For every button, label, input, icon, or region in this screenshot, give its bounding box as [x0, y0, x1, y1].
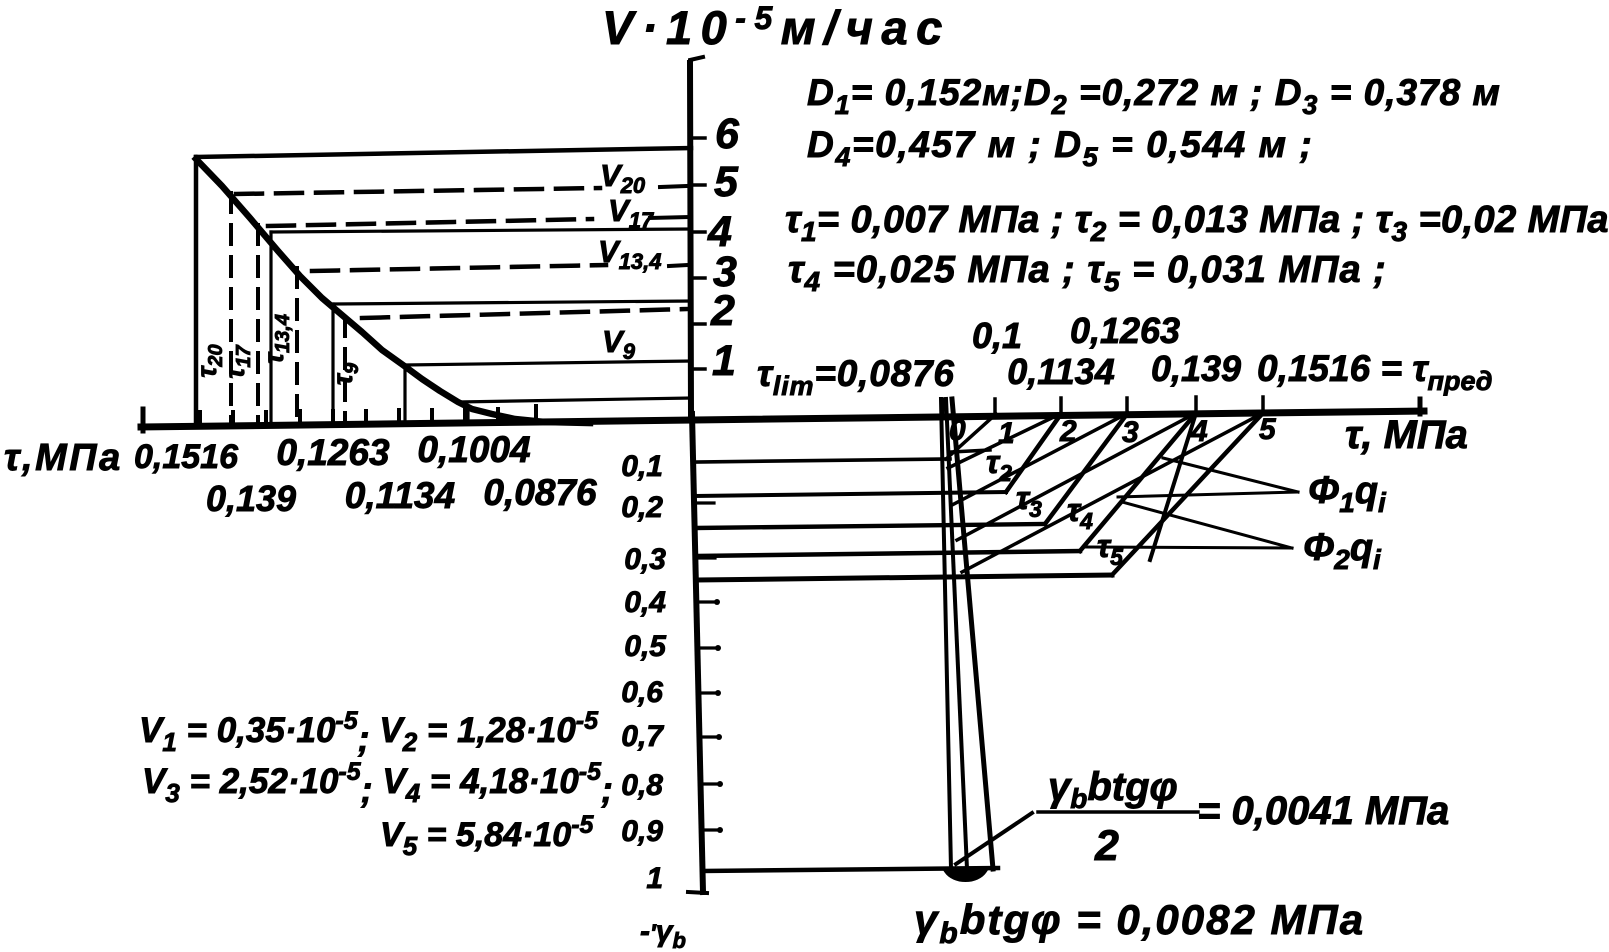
- fraction leader: [956, 813, 1032, 864]
- svg-text:γbbtgφ = 0,0082 МПа: γbbtgφ = 0,0082 МПа: [914, 896, 1365, 950]
- svg-text:1: 1: [998, 417, 1015, 450]
- svg-text:0,8: 0,8: [621, 769, 663, 802]
- vertical solid at 333: [331, 304, 334, 424]
- V axis (upper vertical): [690, 63, 691, 414]
- dashed line V17: [268, 219, 592, 226]
- svg-text:1: 1: [646, 862, 663, 895]
- svg-text:τ4 =0,025 МПа ; τ5 = 0,031 МП: τ4 =0,025 МПа ; τ5 = 0,031 МПа ;: [788, 249, 1387, 297]
- fan m1: [946, 414, 996, 459]
- svg-text:1: 1: [712, 337, 736, 385]
- vertical dashed tau13.4: [295, 268, 299, 424]
- svg-text:0,9: 0,9: [621, 815, 663, 848]
- svg-text:0,0876: 0,0876: [483, 472, 597, 513]
- bottom level-1 line: [703, 868, 998, 871]
- riser s2: [1006, 414, 1061, 492]
- x axis left end tick: [141, 409, 146, 431]
- leader phi1 a: [1163, 458, 1298, 492]
- svg-text:2: 2: [710, 287, 735, 335]
- q line 4: [697, 551, 1080, 556]
- svg-text:5: 5: [714, 158, 739, 206]
- vertical dashed tau20: [229, 193, 233, 424]
- leader phi2 b: [1086, 547, 1292, 548]
- vertical solid at 405: [403, 365, 406, 424]
- svg-text:0: 0: [949, 414, 966, 447]
- step under 0: [951, 450, 990, 452]
- steep line from tick4: [1150, 413, 1196, 560]
- lower axis tick dots: [714, 599, 723, 833]
- x axis right end serif: [1418, 399, 1423, 414]
- leader phi2 a: [1122, 502, 1292, 548]
- svg-text:τ1= 0,007 МПа ; τ2 = 0,013 МПа: τ1= 0,007 МПа ; τ2 = 0,013 МПа ; τ3 =0,0…: [785, 199, 1609, 247]
- svg-text:6: 6: [715, 110, 740, 158]
- main curve: [196, 159, 590, 423]
- vertical solid at 270: [269, 232, 272, 424]
- svg-text:0,6: 0,6: [621, 676, 663, 709]
- riser s3: [1045, 414, 1127, 524]
- svg-text:γbbtgφ: γbbtgφ: [1048, 765, 1178, 814]
- q line 5: [698, 575, 1112, 580]
- lower vertical axis (q): [692, 414, 703, 892]
- svg-text:2: 2: [1059, 415, 1077, 448]
- lower axis ticks: [697, 503, 719, 830]
- V axis ticks: [690, 138, 705, 369]
- svg-text:0,7: 0,7: [621, 720, 664, 753]
- svg-text:4: 4: [1190, 415, 1208, 448]
- vertical dashed tau9: [343, 317, 347, 424]
- svg-text:D1= 0,152м;D2 =0,272 м ; D3 =: D1= 0,152м;D2 =0,272 м ; D3 = 0,378 м: [807, 72, 1501, 120]
- top-left: top solid line s0: [196, 148, 691, 157]
- bundle line 2: [946, 399, 967, 869]
- leader phi1 b: [1118, 492, 1298, 497]
- svg-text:0,1: 0,1: [972, 315, 1022, 356]
- bundle bottom cup: [946, 871, 985, 880]
- svg-text:0,139: 0,139: [206, 478, 296, 519]
- svg-text:3: 3: [1122, 416, 1139, 449]
- solid line s4: [458, 398, 691, 402]
- x axis (tau, MPa): [141, 411, 1424, 427]
- svg-text:τ, МПа: τ, МПа: [1345, 413, 1468, 457]
- dashed line V9: [362, 309, 688, 318]
- svg-text:5: 5: [1259, 413, 1277, 446]
- svg-text:0,3: 0,3: [624, 543, 666, 576]
- dashed line V20: [236, 188, 600, 194]
- riser s4: [1080, 413, 1196, 551]
- fan m4: [957, 413, 1196, 540]
- svg-text:0,1: 0,1: [621, 450, 663, 483]
- fan m5: [962, 413, 1263, 572]
- svg-text:0,1263: 0,1263: [1070, 310, 1180, 351]
- fan m3: [952, 413, 1128, 505]
- svg-text:2: 2: [1094, 822, 1119, 870]
- V axis top serif: [690, 57, 703, 66]
- left axis up ticks: [200, 406, 536, 425]
- dashed line V13.4: [312, 265, 606, 271]
- fraction bar: [1038, 810, 1198, 814]
- V13.4 tick to axis: [669, 265, 688, 266]
- V17 tick to axis: [650, 217, 688, 218]
- solid line s2: [334, 301, 691, 304]
- svg-text:= 0,0041 МПа: = 0,0041 МПа: [1197, 789, 1449, 833]
- solid line s3: [405, 361, 691, 365]
- top-left: left vertical edge: [194, 157, 199, 424]
- svg-text:D4=0,457 м ; D5 = 0,544 м: D4=0,457 м ; D5 = 0,544 м ;: [807, 124, 1313, 172]
- svg-text:0,139: 0,139: [1151, 348, 1241, 389]
- solid line s1: [271, 229, 691, 232]
- svg-text:τ,МПа: τ,МПа: [4, 437, 123, 479]
- svg-text:0,1004: 0,1004: [417, 429, 530, 470]
- svg-text:0,2: 0,2: [621, 491, 663, 524]
- q line 1: [695, 459, 950, 462]
- q line 3: [696, 524, 1045, 528]
- V20 tick to axis: [660, 186, 688, 187]
- tau axis ticks (right): [943, 397, 1263, 414]
- svg-text:0,1516: 0,1516: [134, 438, 239, 476]
- svg-text:0,1134: 0,1134: [345, 475, 455, 516]
- lower axis bottom tick: [688, 892, 707, 893]
- bundle line 1: [941, 399, 951, 869]
- q line 2: [695, 492, 1006, 496]
- svg-text:0,1263: 0,1263: [276, 432, 390, 473]
- svg-text:0,4: 0,4: [624, 586, 666, 619]
- svg-text:0,1134: 0,1134: [1007, 351, 1114, 392]
- bundle line 3: [952, 399, 993, 869]
- fan m2: [948, 414, 1060, 468]
- riser s5: [1112, 413, 1263, 575]
- svg-text:0,5: 0,5: [624, 630, 667, 663]
- vertical dashed tau17: [256, 225, 260, 424]
- vertical solid at 468: [466, 406, 469, 424]
